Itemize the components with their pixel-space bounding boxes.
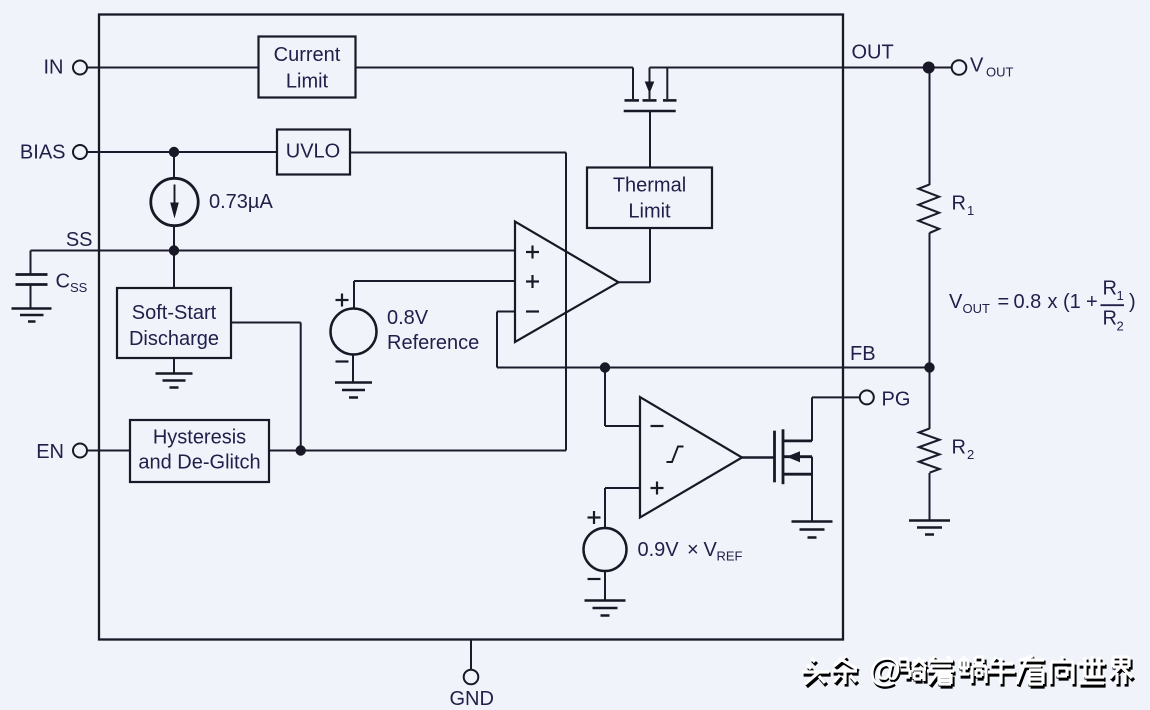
svg-text:FB: FB bbox=[850, 343, 876, 365]
svg-text:x: x bbox=[1048, 291, 1058, 313]
svg-text:V: V bbox=[970, 55, 984, 77]
svg-text:Discharge: Discharge bbox=[129, 328, 219, 350]
svg-text:C: C bbox=[56, 271, 70, 293]
svg-text:EN: EN bbox=[36, 441, 64, 463]
svg-text:Current: Current bbox=[274, 44, 341, 66]
svg-text:Reference: Reference bbox=[387, 332, 479, 354]
svg-text:R: R bbox=[952, 437, 966, 459]
svg-text:Soft-Start: Soft-Start bbox=[132, 302, 217, 324]
svg-text:IN: IN bbox=[44, 57, 64, 79]
svg-text:): ) bbox=[1129, 291, 1136, 313]
svg-text:(1: (1 bbox=[1063, 291, 1081, 313]
svg-text:Hysteresis: Hysteresis bbox=[153, 427, 246, 449]
svg-text:V: V bbox=[949, 291, 963, 313]
svg-text:OUT: OUT bbox=[986, 65, 1014, 80]
svg-text:Limit: Limit bbox=[286, 71, 329, 93]
svg-text:1: 1 bbox=[967, 203, 974, 218]
svg-text:SS: SS bbox=[70, 280, 88, 295]
svg-text:OUT: OUT bbox=[852, 42, 894, 64]
svg-text:BIAS: BIAS bbox=[20, 142, 66, 164]
svg-text:2: 2 bbox=[1117, 319, 1124, 334]
svg-text:Limit: Limit bbox=[628, 201, 671, 223]
svg-text:R: R bbox=[1103, 308, 1117, 330]
svg-text:+: + bbox=[1086, 291, 1098, 313]
svg-text:R: R bbox=[952, 193, 966, 215]
svg-text:GND: GND bbox=[450, 688, 494, 710]
svg-text:=: = bbox=[998, 291, 1010, 313]
svg-text:UVLO: UVLO bbox=[286, 141, 340, 163]
svg-text:0.8: 0.8 bbox=[1014, 291, 1042, 313]
svg-text:0.8V: 0.8V bbox=[387, 307, 429, 329]
svg-text:REF: REF bbox=[717, 549, 743, 564]
svg-text:1: 1 bbox=[1117, 288, 1124, 303]
svg-text:OUT: OUT bbox=[963, 301, 991, 316]
svg-text:Thermal: Thermal bbox=[613, 175, 686, 197]
svg-text:and De-Glitch: and De-Glitch bbox=[138, 452, 260, 474]
svg-text:PG: PG bbox=[882, 389, 911, 411]
svg-text:R: R bbox=[1103, 278, 1117, 300]
svg-text:0.73µA: 0.73µA bbox=[209, 191, 273, 213]
svg-text:@: @ bbox=[869, 651, 901, 688]
svg-text:SS: SS bbox=[66, 229, 93, 251]
svg-text:×: × bbox=[687, 539, 699, 561]
svg-text:V: V bbox=[704, 539, 718, 561]
svg-text:0.9V: 0.9V bbox=[638, 539, 680, 561]
svg-text:2: 2 bbox=[967, 447, 974, 462]
